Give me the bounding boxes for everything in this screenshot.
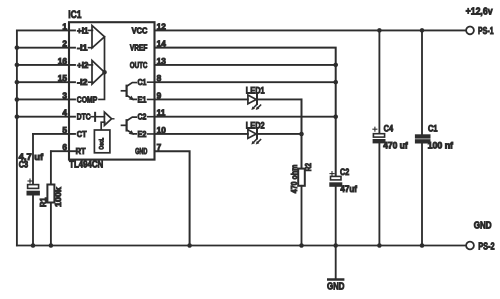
svg-text:5: 5 bbox=[62, 125, 67, 135]
svg-text:PS-1: PS-1 bbox=[478, 26, 494, 37]
svg-text:R1: R1 bbox=[38, 197, 48, 207]
svg-text:-I2: -I2 bbox=[77, 77, 88, 87]
svg-text:E2: E2 bbox=[138, 129, 147, 139]
svg-text:C4: C4 bbox=[384, 123, 394, 133]
svg-text:1: 1 bbox=[62, 21, 67, 31]
svg-text:E1: E1 bbox=[138, 94, 147, 104]
svg-text:C2: C2 bbox=[340, 167, 349, 177]
svg-text:3: 3 bbox=[62, 90, 67, 100]
svg-text:IC1: IC1 bbox=[68, 9, 81, 21]
svg-text:C2: C2 bbox=[138, 112, 147, 122]
svg-text:VREF: VREF bbox=[130, 43, 148, 53]
svg-text:GND: GND bbox=[327, 282, 345, 293]
svg-text:LED2: LED2 bbox=[246, 120, 265, 130]
svg-text:-I1: -I1 bbox=[77, 43, 88, 53]
svg-text:COMP: COMP bbox=[77, 94, 98, 104]
svg-text:C3: C3 bbox=[19, 160, 28, 170]
svg-text:+I2: +I2 bbox=[77, 60, 89, 70]
svg-text:+I1: +I1 bbox=[77, 25, 89, 35]
svg-text:6: 6 bbox=[62, 142, 67, 152]
svg-text:TL494CN: TL494CN bbox=[69, 160, 103, 171]
svg-text:OUTC: OUTC bbox=[130, 60, 148, 70]
svg-text:4: 4 bbox=[62, 108, 67, 118]
svg-text:100k: 100k bbox=[53, 187, 63, 207]
svg-text:C1: C1 bbox=[138, 77, 147, 87]
svg-text:470 uf: 470 uf bbox=[383, 141, 408, 151]
svg-text:100 nf: 100 nf bbox=[428, 141, 453, 151]
svg-text:CT: CT bbox=[77, 129, 87, 139]
svg-text:C1: C1 bbox=[428, 123, 438, 133]
svg-text:DTC: DTC bbox=[77, 112, 91, 122]
svg-text:GND: GND bbox=[474, 221, 492, 232]
svg-text:+12,6v: +12,6v bbox=[466, 6, 493, 17]
svg-text:470 ohm: 470 ohm bbox=[289, 165, 299, 194]
svg-text:VCC: VCC bbox=[132, 25, 148, 35]
svg-text:2: 2 bbox=[62, 39, 67, 49]
svg-text:R2: R2 bbox=[303, 163, 313, 172]
svg-text:RT: RT bbox=[76, 146, 86, 156]
svg-text:GND: GND bbox=[135, 146, 147, 156]
svg-text:16: 16 bbox=[58, 56, 68, 66]
svg-text:LED1: LED1 bbox=[246, 86, 265, 96]
svg-text:15: 15 bbox=[58, 73, 68, 83]
svg-text:PS-2: PS-2 bbox=[478, 241, 495, 252]
svg-text:Oscl.: Oscl. bbox=[99, 137, 106, 149]
svg-text:47uf: 47uf bbox=[340, 184, 357, 194]
